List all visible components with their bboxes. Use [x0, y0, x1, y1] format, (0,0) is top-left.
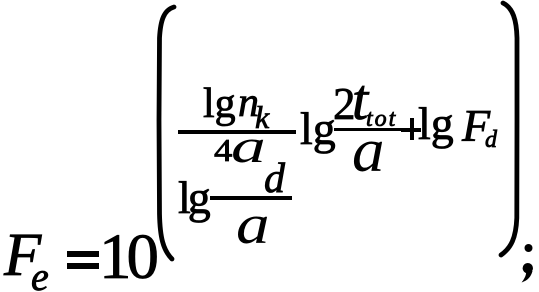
middle numerator: t [352, 99, 368, 101]
inner fraction bar (4a_d over a) [210, 196, 292, 200]
equals sign [67, 251, 99, 257]
middle term: lg [300, 128, 336, 130]
middle numerator: 2 [333, 103, 356, 105]
middle fraction bar (2t_tot over a) [334, 128, 406, 132]
numerator: lg [203, 103, 236, 105]
base 10 [99, 256, 154, 258]
subscript d of F_d [485, 139, 497, 141]
subscript e of F_e [31, 276, 49, 278]
numerator subscript k [255, 116, 269, 118]
variable F_d [462, 125, 490, 127]
main fraction bar (lg n_k over lg 4a_d/a) [178, 130, 296, 134]
last term: lg [418, 123, 454, 125]
subscript tot [366, 118, 397, 120]
middle denominator: a [352, 150, 385, 152]
subscript d of 4a_d [264, 178, 285, 180]
denominator inner numerator: 4 [214, 149, 232, 151]
plus sign [401, 128, 421, 132]
inner denominator: a [236, 224, 270, 226]
variable F (F_e base) [4, 255, 41, 257]
denominator inner numerator: a [231, 146, 266, 148]
numerator: n [238, 102, 259, 104]
denominator: lg [178, 197, 208, 199]
